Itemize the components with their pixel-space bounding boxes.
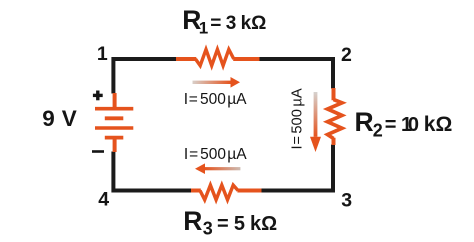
svg-text:=: =: [210, 13, 221, 34]
svg-text:5: 5: [234, 213, 245, 235]
svg-text:=: =: [189, 91, 198, 108]
svg-text:V: V: [62, 106, 77, 131]
svg-text:3: 3: [226, 13, 237, 34]
svg-text:I: I: [184, 91, 188, 108]
svg-text:=: =: [189, 146, 198, 163]
svg-text:kΩ: kΩ: [241, 13, 267, 34]
svg-text:1: 1: [199, 19, 208, 38]
svg-text:kΩ: kΩ: [250, 213, 277, 235]
svg-text:=: =: [289, 136, 305, 145]
svg-text:=: =: [217, 213, 229, 235]
svg-text:9: 9: [42, 106, 55, 131]
svg-text:500: 500: [200, 146, 226, 163]
svg-text:0: 0: [408, 114, 419, 136]
svg-text:3: 3: [203, 219, 213, 239]
svg-text:R: R: [183, 206, 202, 236]
svg-text:500: 500: [200, 91, 226, 108]
svg-text:2: 2: [341, 44, 352, 66]
svg-text:µA: µA: [227, 146, 247, 163]
svg-text:=: =: [385, 114, 397, 136]
svg-text:I: I: [289, 145, 305, 149]
svg-text:µA: µA: [227, 91, 247, 108]
svg-text:R: R: [355, 107, 374, 137]
svg-text:I: I: [184, 146, 188, 163]
svg-text:µA: µA: [289, 88, 305, 106]
svg-text:kΩ: kΩ: [424, 113, 453, 136]
svg-text:1: 1: [97, 43, 108, 65]
svg-text:500: 500: [289, 109, 305, 134]
svg-text:3: 3: [341, 190, 352, 212]
svg-text:4: 4: [98, 189, 109, 211]
svg-text:2: 2: [373, 121, 383, 141]
